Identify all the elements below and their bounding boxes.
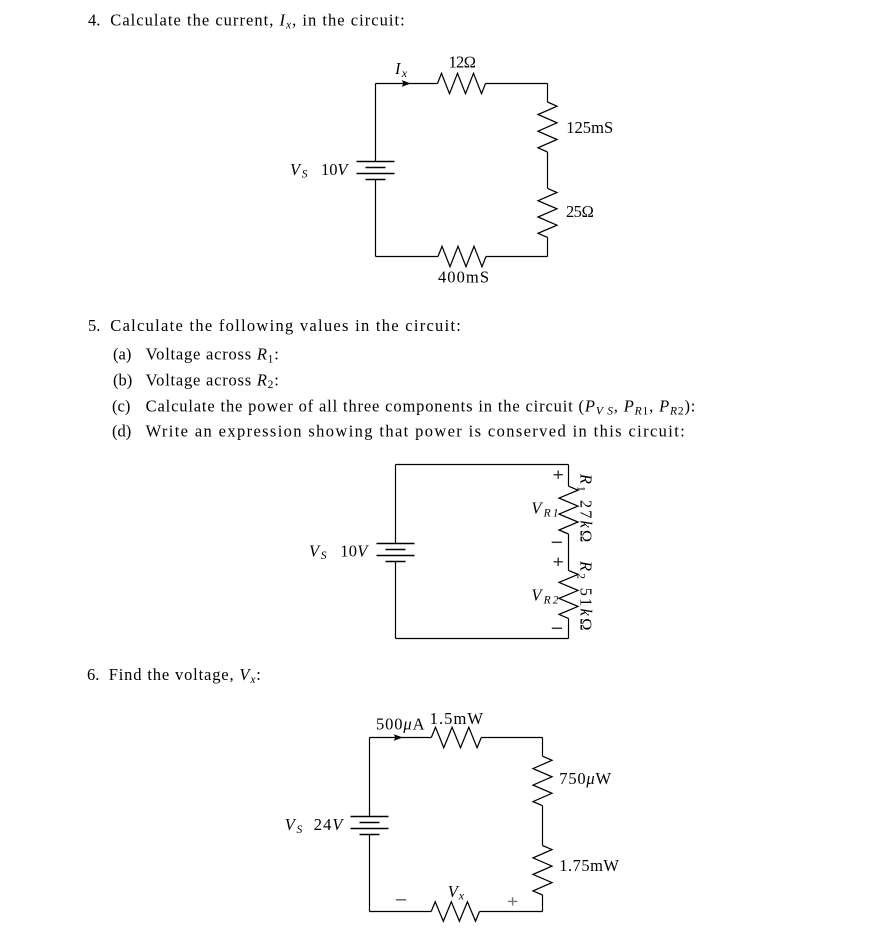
resistor Vx with polarity labels (circuit 3 bottom) (396, 882, 517, 921)
svg-text:VS: VS (290, 160, 308, 181)
svg-text:25Ω: 25Ω (566, 202, 594, 221)
wire: circuit1 top wire right part (486, 83, 548, 85)
svg-text:125mS: 125mS (566, 118, 613, 137)
wire: circuit2 top wire (396, 464, 569, 466)
wire: circuit2 right wire middle segment (568, 534, 570, 570)
voltage source VS 10V (battery, circuit 2) (309, 541, 415, 562)
wire: circuit1 bottom wire right part (486, 256, 548, 258)
wire: circuit3 bottom wire left part (370, 911, 432, 913)
svg-text:R1 27kΩ: R1 27kΩ (575, 473, 596, 543)
wire: circuit1 left wire top segment (source top lead) (375, 84, 377, 162)
svg-text:Calculate the current, Ix, in: Calculate the current, Ix, in the circui… (110, 11, 404, 32)
wire: circuit2 right wire upper segment (568, 465, 570, 487)
wire: circuit3 bottom wire right part (480, 911, 543, 913)
resistor 25 ohm (circuit 1 right lower) (538, 188, 594, 237)
wire: circuit3 right wire upper segment (542, 738, 544, 757)
wire: circuit3 top wire right part (481, 737, 542, 739)
svg-text:6.: 6. (87, 665, 99, 684)
resistor 1.75mW (circuit 3 right lower) (533, 846, 619, 896)
resistor 750uW (circuit 3 right upper) (533, 756, 612, 806)
wire: circuit3 right wire bottom segment (542, 895, 544, 912)
wire: circuit1 bottom wire left part (376, 256, 439, 258)
current arrow Ix (circuit 1) (394, 59, 411, 87)
svg-text:(d): (d) (112, 421, 131, 440)
resistor 1.5mW (circuit 3 top) (430, 709, 484, 748)
voltage source VS 10V (battery, circuit 1) (290, 160, 395, 181)
svg-text:(c): (c) (112, 397, 130, 416)
svg-text:24V: 24V (314, 815, 345, 834)
svg-text:500μA: 500μA (376, 715, 425, 734)
svg-text:Calculate the following values: Calculate the following values in the ci… (110, 316, 461, 335)
wire: circuit3 left wire bottom segment (source bottom lead) (369, 835, 371, 912)
svg-text:750μW: 750μW (559, 769, 611, 788)
wire: circuit3 left wire top segment (source top lead) (369, 738, 371, 817)
wire: circuit1 right wire bottom segment (547, 237, 549, 256)
svg-text:5.: 5. (88, 316, 100, 335)
svg-text:Write an expression showing th: Write an expression showing that power i… (146, 421, 685, 440)
svg-text:Voltage across R2:: Voltage across R2: (146, 370, 279, 391)
svg-text:Ix: Ix (394, 59, 408, 80)
svg-text:Voltage across R1:: Voltage across R1: (146, 345, 279, 366)
svg-text:Find the voltage, Vx:: Find the voltage, Vx: (109, 665, 261, 686)
resistor R1 27kohm with VR1 polarity (circuit 2 upper) (531, 471, 595, 543)
svg-text:VS: VS (309, 541, 327, 562)
conductance 125mS (circuit 1 right upper) (538, 102, 613, 152)
svg-text:VS: VS (285, 815, 303, 836)
wire: circuit3 top wire left part (370, 737, 432, 739)
wire: circuit1 right wire middle segment (547, 152, 549, 188)
svg-text:Vx: Vx (448, 882, 465, 903)
svg-text:(a): (a) (113, 345, 131, 364)
svg-text:12Ω: 12Ω (449, 53, 477, 72)
svg-text:VR1: VR1 (531, 499, 558, 520)
wire: circuit3 right wire middle segment (542, 806, 544, 846)
resistor 12 ohm (circuit 1 top) (438, 53, 486, 94)
wire: circuit1 top wire left part (376, 83, 438, 85)
conductance 400mS (circuit 1 bottom) (438, 246, 489, 286)
wire: circuit2 left wire top segment (source top lead) (395, 465, 397, 544)
svg-text:1.75mW: 1.75mW (559, 856, 619, 875)
wire: circuit1 left wire bottom segment (source bottom lead) (375, 180, 377, 257)
voltage source VS 24V (battery, circuit 3) (285, 815, 389, 836)
wire: circuit2 bottom wire (396, 638, 569, 640)
svg-text:400mS: 400mS (438, 267, 489, 286)
svg-text:1.5mW: 1.5mW (430, 709, 484, 728)
svg-text:10V: 10V (340, 541, 369, 560)
resistor R2 51kohm with VR2 polarity (circuit 2 lower) (531, 558, 595, 631)
current arrow 500uA (circuit 3) (376, 715, 425, 741)
wire: circuit2 right wire bottom segment (568, 618, 570, 638)
wire: circuit1 right wire upper segment (547, 84, 549, 103)
svg-text:(b): (b) (113, 370, 132, 389)
svg-text:Calculate the power of all thr: Calculate the power of all three compone… (146, 397, 696, 418)
svg-text:R2 51kΩ: R2 51kΩ (575, 560, 596, 631)
wire: circuit2 left wire bottom segment (source bottom lead) (395, 562, 397, 639)
svg-text:10V: 10V (321, 160, 349, 179)
svg-text:4.: 4. (88, 11, 100, 30)
svg-text:VR2: VR2 (531, 586, 558, 607)
